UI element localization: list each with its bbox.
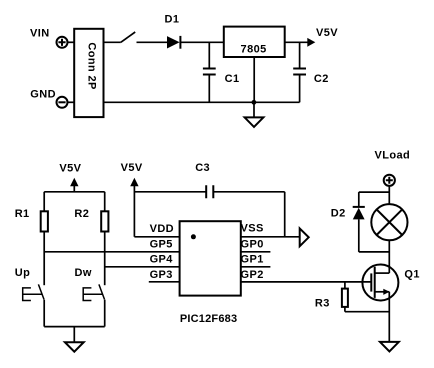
svg-text:VSS: VSS [241,222,264,234]
svg-text:GND: GND [30,88,56,100]
svg-text:Conn 2P: Conn 2P [85,42,97,89]
svg-text:GP1: GP1 [241,253,264,265]
svg-text:D1: D1 [165,14,180,26]
svg-text:V5V: V5V [316,27,338,39]
svg-text:V5V: V5V [121,162,143,174]
svg-text:C2: C2 [314,73,329,85]
svg-text:GP0: GP0 [241,238,264,250]
svg-text:Up: Up [15,267,30,279]
svg-text:GP4: GP4 [150,253,174,265]
svg-text:GP3: GP3 [150,269,173,281]
svg-text:VLoad: VLoad [375,149,411,161]
svg-text:GP5: GP5 [150,238,173,250]
svg-text:D2: D2 [331,207,346,219]
svg-text:PIC12F683: PIC12F683 [180,313,237,325]
svg-text:VDD: VDD [150,223,174,235]
svg-text:R2: R2 [74,208,89,220]
svg-text:GP2: GP2 [241,269,264,281]
svg-text:V5V: V5V [59,162,81,174]
svg-text:VIN: VIN [30,27,50,39]
svg-text:R3: R3 [315,297,330,309]
svg-text:R1: R1 [15,208,30,220]
svg-text:Q1: Q1 [404,269,419,281]
svg-text:Dw: Dw [75,267,92,279]
svg-text:C1: C1 [225,73,240,85]
svg-text:7805: 7805 [241,44,267,56]
svg-text:C3: C3 [195,162,210,174]
